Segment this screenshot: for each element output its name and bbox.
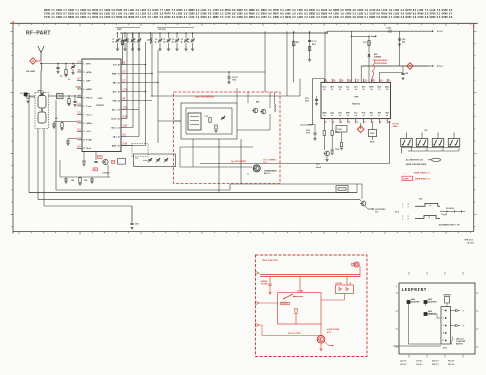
svg-text:27: 27 — [118, 73, 120, 75]
svg-text:D240: D240 — [201, 16, 208, 19]
svg-text:4: 4 — [408, 217, 409, 220]
svg-text:R410: R410 — [92, 16, 99, 19]
svg-text:ALIMTER: ALIMTER — [429, 300, 438, 303]
svg-text:DacO: DacO — [111, 118, 117, 120]
svg-text:BATT B: BATT B — [456, 342, 463, 345]
svg-text:D980: D980 — [369, 16, 376, 19]
svg-text:8p: 8p — [181, 41, 183, 43]
svg-text:(WIDE CHROME DATA): (WIDE CHROME DATA) — [406, 163, 427, 166]
svg-text:AMin: AMin — [112, 144, 118, 147]
svg-text:R630: R630 — [68, 16, 75, 19]
svg-text:1: 1 — [402, 218, 403, 220]
svg-text:Mix b: Mix b — [111, 127, 117, 129]
svg-text:3: 3 — [408, 206, 409, 208]
svg-text:3.4: 3.4 — [99, 16, 103, 19]
svg-text:4.1: 4.1 — [51, 16, 55, 19]
svg-text:6.3: 6.3 — [401, 16, 405, 19]
svg-text:FM OSC: FM OSC — [159, 29, 167, 31]
svg-text:C104: C104 — [370, 132, 374, 135]
svg-text:9.7: 9.7 — [340, 16, 344, 19]
svg-text:FM LO: FM LO — [86, 97, 93, 99]
svg-text:2.7: 2.7 — [389, 16, 393, 19]
svg-text:9.6: 9.6 — [244, 16, 248, 19]
svg-text:5.3: 5.3 — [160, 16, 164, 19]
svg-text:a8: a8 — [386, 115, 388, 117]
svg-text:Neg(2): Neg(2) — [442, 214, 448, 216]
svg-text:AFGL: AFGL — [86, 71, 92, 74]
svg-text:R71: R71 — [296, 42, 299, 44]
svg-text:LO b: LO b — [86, 131, 91, 133]
svg-text:(JAPAN): (JAPAN) — [374, 56, 382, 59]
svg-text:JUMPER: JUMPER — [443, 295, 451, 297]
svg-text:9.8: 9.8 — [425, 16, 429, 19]
svg-text:21: 21 — [118, 127, 120, 129]
svg-text:RF–PART: RF–PART — [26, 31, 51, 37]
svg-text:8p: 8p — [155, 41, 157, 43]
svg-text:R102: R102 — [335, 132, 339, 134]
svg-text:FM–AER: FM–AER — [26, 70, 35, 73]
svg-text:− 1: − 1 — [462, 311, 465, 313]
svg-text:C420: C420 — [321, 16, 328, 19]
svg-text:M13: M13 — [443, 348, 447, 350]
svg-text:VCC: VCC — [322, 87, 327, 89]
svg-text:R920: R920 — [285, 16, 292, 19]
svg-text:L170: L170 — [140, 16, 146, 19]
svg-text:3.3: 3.3 — [172, 16, 176, 19]
svg-text:P out: P out — [86, 105, 91, 108]
svg-text:R8.2: R8.2 — [312, 44, 316, 46]
svg-text:5.2: 5.2 — [232, 16, 236, 19]
svg-text:2.5: 2.5 — [437, 16, 441, 19]
svg-text:PhD: PhD — [113, 100, 118, 102]
svg-text:D50 2 F: D50 2 F — [432, 361, 440, 363]
svg-text:▲: ▲ — [395, 285, 397, 288]
svg-text:L940: L940 — [333, 16, 339, 19]
svg-text:TEA5712: TEA5712 — [352, 103, 360, 106]
svg-text:1: 1 — [443, 310, 444, 312]
svg-text:CHIP: CHIP — [354, 97, 359, 99]
svg-text:GND: GND — [322, 113, 327, 115]
svg-text:26: 26 — [118, 82, 120, 84]
svg-text:L800: L800 — [152, 16, 158, 19]
svg-text:C800: C800 — [80, 16, 87, 19]
svg-text:CHIP: CHIP — [98, 98, 104, 100]
svg-text:− 3: − 3 — [462, 326, 465, 328]
svg-text:D300: D300 — [406, 16, 413, 19]
svg-text:C103: C103 — [335, 149, 339, 151]
svg-text:ANTA: ANTA — [86, 88, 92, 91]
svg-text:Vref: Vref — [113, 64, 117, 66]
svg-text:L550: L550 — [261, 16, 267, 19]
svg-text:7: 7 — [83, 114, 84, 116]
svg-text:IFref: IFref — [86, 148, 91, 150]
svg-text:C250: C250 — [104, 16, 111, 19]
svg-text:6.4: 6.4 — [256, 16, 260, 19]
svg-text:C360: C360 — [237, 16, 244, 19]
svg-text:C820: C820 — [56, 16, 63, 19]
svg-text:3: 3 — [443, 325, 444, 327]
svg-text:M20: M20 — [419, 199, 423, 201]
svg-text:C30: C30 — [424, 130, 427, 132]
svg-text:2.2: 2.2 — [292, 16, 296, 19]
svg-text:9.7: 9.7 — [111, 16, 115, 19]
svg-text:ATC: ATC — [113, 90, 118, 93]
svg-text:b2: b2 — [339, 89, 341, 91]
svg-text:C380: C380 — [273, 16, 280, 19]
svg-text:24: 24 — [118, 99, 120, 102]
svg-text:33: 33 — [120, 41, 122, 43]
svg-text:D340: D340 — [357, 16, 364, 19]
svg-text:R100: R100 — [177, 16, 184, 19]
svg-text:L610: L610 — [189, 16, 195, 19]
svg-text:D320: D320 — [345, 16, 352, 19]
svg-text:FL 7x STEREO: FL 7x STEREO — [264, 160, 277, 162]
svg-text:7.2: 7.2 — [196, 16, 200, 19]
svg-text:2: 2 — [83, 72, 84, 74]
svg-text:R530: R530 — [116, 16, 123, 19]
svg-text:8p: 8p — [163, 41, 165, 43]
svg-text:WIRE, RADIO 7x: WIRE, RADIO 7x — [414, 171, 430, 174]
svg-text:5.8: 5.8 — [377, 16, 381, 19]
svg-text:6.8: 6.8 — [124, 16, 128, 19]
svg-text:L710: L710 — [225, 16, 231, 19]
svg-text:D880: D880 — [213, 16, 220, 19]
svg-text:Osc 1: Osc 1 — [86, 114, 92, 116]
svg-text:K1: K1 — [136, 158, 138, 160]
svg-text:R310: R310 — [249, 16, 256, 19]
svg-text:b8: b8 — [386, 89, 388, 91]
svg-text:1: 1 — [402, 206, 403, 208]
svg-text:b7: b7 — [378, 89, 380, 91]
svg-text:C290: C290 — [393, 16, 400, 19]
svg-text:23: 23 — [118, 109, 120, 111]
svg-text:N-(FM 2703B): N-(FM 2703B) — [327, 329, 339, 331]
svg-text:5: 5 — [443, 340, 444, 342]
svg-text:Opt. FM AERIAL: Opt. FM AERIAL — [195, 96, 215, 99]
svg-text:MW-S: MW-S — [38, 91, 44, 93]
svg-text:20: 20 — [118, 136, 120, 138]
svg-text:C60 4 L: C60 4 L — [416, 363, 424, 366]
svg-text:FMIX: FMIX — [117, 29, 122, 31]
svg-text:19: 19 — [118, 145, 120, 147]
svg-text:LEDPRINT: LEDPRINT — [402, 288, 427, 293]
svg-text:a6: a6 — [370, 115, 372, 117]
svg-text:D630: D630 — [381, 16, 388, 19]
svg-text:b1: b1 — [331, 89, 333, 91]
svg-text:11: 11 — [83, 148, 85, 150]
svg-text:C78: C78 — [363, 42, 366, 44]
svg-text:258A: 258A — [403, 178, 409, 181]
svg-text:2.4: 2.4 — [63, 16, 67, 19]
svg-text:2.1: 2.1 — [87, 16, 91, 19]
svg-text:4.5V TO 22TR: 4.5V TO 22TR — [288, 332, 301, 335]
svg-text:50mA: 50mA — [316, 166, 322, 169]
svg-text:1.6M: 1.6M — [75, 87, 80, 89]
svg-text:C49: C49 — [84, 179, 87, 182]
svg-text:Opt. FM STEREO: Opt. FM STEREO — [231, 160, 247, 163]
svg-text:3.9: 3.9 — [75, 16, 79, 19]
svg-text:b5: b5 — [362, 89, 364, 91]
svg-text:3.7: 3.7 — [184, 16, 188, 19]
svg-text:8.5: 8.5 — [136, 16, 140, 19]
svg-text:L690: L690 — [297, 16, 303, 19]
svg-text:(7x): (7x) — [375, 212, 379, 214]
svg-text:L1: L1 — [68, 79, 70, 81]
svg-text:F60 4 F: F60 4 F — [448, 363, 455, 366]
svg-text:L60 2 F: L60 2 F — [400, 361, 407, 363]
svg-text:D200: D200 — [165, 16, 172, 19]
svg-text:D780: D780 — [442, 16, 449, 19]
svg-text:2.45: 2.45 — [123, 143, 128, 146]
svg-text:7.2: 7.2 — [304, 16, 308, 19]
svg-text:4: 4 — [83, 88, 84, 91]
svg-text:TCAP: TCAP — [86, 139, 92, 142]
svg-text:28: 28 — [118, 64, 120, 66]
svg-text:Osc: Osc — [346, 87, 350, 89]
svg-text:3.8: 3.8 — [352, 16, 356, 19]
svg-text:6.5V(9V): 6.5V(9V) — [103, 173, 110, 175]
svg-text:a1: a1 — [331, 115, 333, 117]
svg-text:C740: C740 — [44, 16, 51, 19]
svg-text:C530: C530 — [418, 16, 425, 19]
svg-text:9.8: 9.8 — [449, 16, 453, 19]
svg-text:R920: R920 — [128, 16, 135, 19]
svg-text:L40: L40 — [147, 39, 150, 42]
svg-text:TUNE-IN: TUNE-IN — [429, 313, 437, 315]
svg-text:C12: C12 — [205, 116, 208, 118]
svg-text:AGNa: AGNa — [86, 122, 92, 125]
svg-text:FILTER: FILTER — [261, 284, 268, 286]
svg-text:8: 8 — [83, 123, 84, 125]
svg-text:C48: C48 — [71, 179, 74, 182]
svg-text:a2: a2 — [339, 115, 341, 117]
svg-text:a7: a7 — [378, 115, 380, 117]
svg-text:L940: L940 — [309, 16, 315, 19]
svg-text:5: 5 — [83, 97, 84, 99]
svg-text:4.5: 4.5 — [148, 16, 152, 19]
svg-text:ALIMTER: ALIMTER — [412, 300, 421, 303]
svg-text:a0: a0 — [323, 115, 325, 117]
svg-text:T.B.9101: T.B.9101 — [467, 243, 474, 245]
svg-text:AGC: AGC — [385, 86, 390, 89]
svg-text:33: 33 — [112, 41, 114, 43]
svg-text:WIRE RADIO 7x: WIRE RADIO 7x — [415, 178, 431, 181]
svg-text:AM 7Cx: AM 7Cx — [264, 172, 271, 175]
svg-text:– – – :: – – – : — [403, 172, 409, 174]
svg-text:b3: b3 — [347, 89, 349, 91]
svg-text:b0: b0 — [323, 89, 325, 91]
svg-text:Q5 B80: Q5 B80 — [336, 283, 343, 285]
svg-text:33: 33 — [127, 41, 129, 43]
svg-text:IF 10.7: IF 10.7 — [437, 66, 443, 68]
svg-text:FM STEREO: FM STEREO — [375, 209, 386, 211]
svg-text:25: 25 — [118, 91, 120, 93]
svg-text:F60 4 F: F60 4 F — [448, 360, 455, 363]
svg-text:1.1: 1.1 — [268, 16, 272, 19]
svg-text:C82: C82 — [405, 73, 408, 75]
svg-text:8p: 8p — [172, 41, 174, 43]
svg-text:2: 2 — [443, 318, 444, 320]
svg-text:C60 4 L: C60 4 L — [416, 360, 424, 363]
svg-text:FMIF: FMIF — [112, 73, 117, 75]
svg-text:6.1: 6.1 — [208, 16, 212, 19]
svg-text:KATHODENU: KATHODENU — [375, 62, 388, 65]
svg-text:ALIGNMENT INFO 1 OF: ALIGNMENT INFO 1 OF — [439, 224, 461, 227]
svg-text:D230: D230 — [430, 16, 437, 19]
svg-text:7.3: 7.3 — [220, 16, 224, 19]
svg-text:MC2: MC2 — [395, 211, 399, 213]
svg-text:C 1.0: C 1.0 — [312, 41, 316, 43]
svg-text:1.45: 1.45 — [123, 125, 128, 128]
svg-text:MAINS: MAINS — [261, 280, 268, 283]
svg-text:6.3: 6.3 — [316, 16, 320, 19]
svg-text:C102: C102 — [337, 129, 341, 131]
svg-text:TDA5757: TDA5757 — [96, 104, 105, 107]
svg-text:33: 33 — [134, 41, 136, 43]
svg-text:2.4: 2.4 — [280, 16, 284, 19]
svg-text:(7x): (7x) — [264, 162, 268, 164]
svg-text:RFB 02 01: RFB 02 01 — [465, 239, 474, 241]
svg-text:ONLY FOR 22TR: ONLY FOR 22TR — [262, 260, 278, 262]
svg-text:4.5: 4.5 — [328, 16, 332, 19]
svg-text:22: 22 — [118, 118, 120, 120]
svg-text:IF 10.7: IF 10.7 — [437, 31, 443, 33]
svg-text:a3: a3 — [347, 115, 349, 117]
svg-text:3: 3 — [83, 80, 84, 82]
svg-text:a5: a5 — [363, 115, 365, 117]
svg-text:6: 6 — [83, 106, 84, 108]
svg-text:10: 10 — [83, 140, 85, 142]
svg-text:KATHODENU: KATHODENU — [375, 59, 388, 62]
svg-text:ALL RESISTOR 1/8: ALL RESISTOR 1/8 — [406, 159, 423, 162]
svg-text:L60 2 F: L60 2 F — [400, 364, 407, 366]
svg-text:C95: C95 — [135, 224, 138, 226]
svg-text:7.9: 7.9 — [413, 16, 417, 19]
svg-text:b6: b6 — [370, 89, 372, 91]
svg-text:9: 9 — [83, 131, 84, 133]
svg-text:AFC: AFC — [330, 86, 335, 89]
svg-text:N-2703: N-2703 — [281, 303, 287, 305]
svg-text:1: 1 — [83, 63, 84, 65]
svg-text:D50 2 F: D50 2 F — [432, 364, 440, 366]
svg-text:5.1: 5.1 — [365, 16, 369, 19]
svg-text:P4 HB 4E: P4 HB 4E — [446, 207, 455, 210]
svg-text:8p: 8p — [187, 41, 189, 43]
svg-text:4 MHz: 4 MHz — [393, 125, 399, 128]
svg-text:C3: C3 — [60, 76, 62, 78]
svg-text:MHz: MHz — [233, 80, 237, 82]
